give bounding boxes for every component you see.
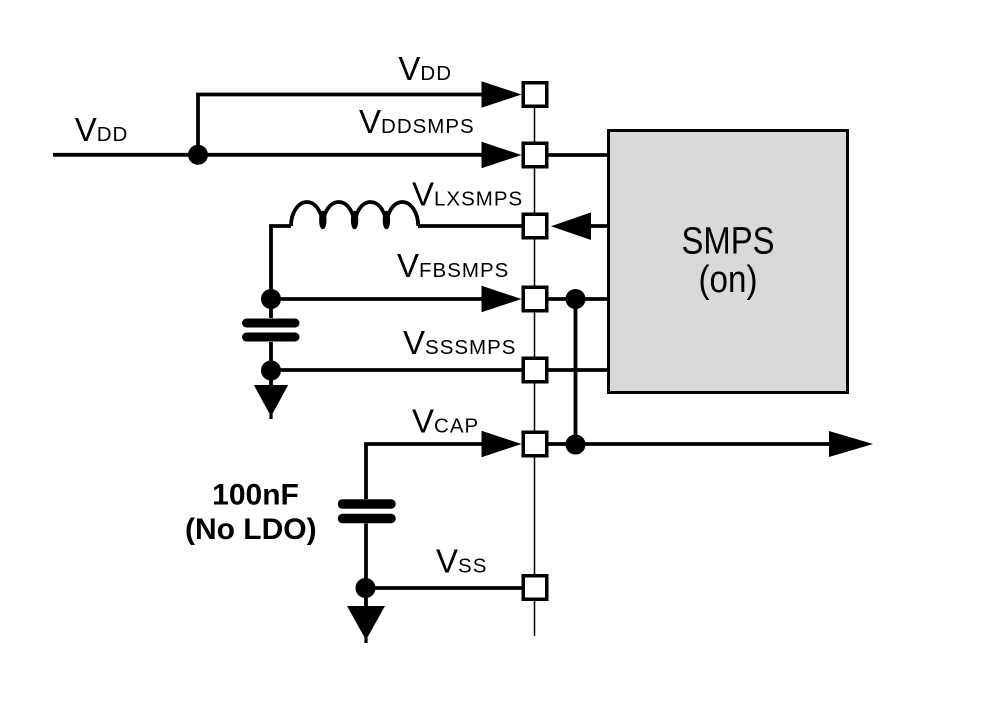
node VSS junction dot (356, 578, 376, 598)
pin square VDD (523, 83, 547, 107)
svg-text:100nF: 100nF (212, 479, 299, 512)
wire VDD input horizontal (53, 153, 482, 157)
wire SSS node to VSSSMPS pin (271, 368, 523, 372)
wire VDDSMPS pin to SMPS box (547, 153, 610, 157)
svg-text:VDDSMPS: VDDSMPS (359, 103, 475, 140)
svg-text:VSSSMPS: VSSSMPS (403, 324, 516, 361)
pin square VSS (523, 576, 547, 600)
svg-text:VDD: VDD (75, 111, 129, 148)
wire capacitor C2 down to VSS node (364, 524, 368, 589)
pin square VSSSMPS (523, 358, 547, 382)
wire VDD branch up and across (198, 95, 482, 156)
svg-text:VFBSMPS: VFBSMPS (397, 247, 509, 284)
svg-text:VCAP: VCAP (412, 403, 479, 440)
wire FB right node down to VCAP node (574, 299, 578, 445)
arrow into VCAP pin (482, 431, 522, 458)
pin square VFBSMPS (523, 287, 547, 311)
svg-text:(No LDO): (No LDO) (185, 513, 317, 546)
node SSS junction dot (261, 361, 281, 381)
arrow into VDDSMPS pin (482, 142, 522, 169)
chip pin line (vertical boundary) (534, 94, 536, 636)
wire VCAP corner to pin (366, 444, 482, 499)
node FB junction dot (261, 289, 281, 309)
capacitor C1 (247, 323, 296, 337)
wire VCAP pin to right arrow (547, 442, 831, 446)
wire FB node down to capacitor C1 (269, 299, 273, 318)
capacitor C2 (343, 504, 392, 519)
wire VSS node to VSS pin (366, 586, 524, 590)
svg-text:VLXSMPS: VLXSMPS (412, 176, 523, 213)
wire FB node to VFBSMPS pin (271, 297, 482, 301)
svg-text:VSS: VSS (436, 543, 487, 580)
svg-text:(on): (on) (699, 259, 758, 301)
wire inductor right lead to VLXSMPS pin (418, 224, 523, 228)
arrow VCAP output (right-pointing) (829, 431, 873, 457)
svg-text:VDD: VDD (398, 50, 452, 87)
wire inductor left lead and down to FB node (271, 226, 291, 299)
node FB right junction dot (566, 289, 586, 309)
pin square VLXSMPS (523, 214, 547, 238)
pin square VCAP (523, 432, 547, 456)
arrow into VFBSMPS pin (482, 286, 522, 313)
arrow into VDD pin (482, 81, 522, 108)
node VCAP right junction dot (566, 435, 586, 455)
ground G1 (254, 370, 288, 419)
SMPS box U1 (609, 131, 848, 393)
wire capacitor C1 to SSS node (269, 342, 273, 371)
pin square VDDSMPS (523, 143, 547, 167)
wire VFBSMPS pin to SMPS box (547, 297, 610, 301)
wire VSSSMPS pin to SMPS box (547, 368, 610, 372)
ground G2 (347, 588, 385, 643)
wire SMPS box to VLXSMPS arrow (590, 224, 609, 228)
node VDD junction dot (188, 145, 208, 165)
inductor L1 (291, 202, 418, 228)
arrow from SMPS into VLXSMPS pin (left-pointing) (551, 212, 591, 240)
svg-text:SMPS: SMPS (682, 221, 775, 263)
